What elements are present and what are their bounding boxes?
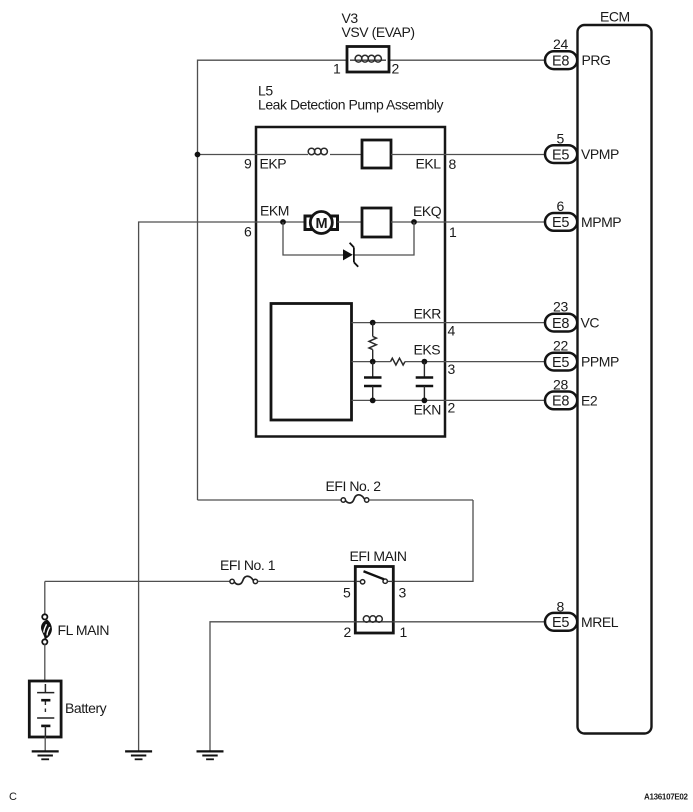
solenoid V3 VSV (EVAP) bbox=[342, 10, 415, 72]
svg-text:M: M bbox=[316, 216, 328, 232]
svg-text:EKS: EKS bbox=[414, 342, 441, 358]
wire battery to ground bbox=[44, 737, 46, 751]
svg-text:EFI No. 2: EFI No. 2 bbox=[326, 478, 382, 494]
wire PRG net bbox=[198, 60, 547, 500]
wire battery feed bbox=[44, 581, 46, 614]
svg-text:VSV (EVAP): VSV (EVAP) bbox=[342, 24, 415, 40]
svg-text:EKL: EKL bbox=[416, 156, 442, 172]
svg-text:9: 9 bbox=[244, 156, 252, 172]
svg-text:22: 22 bbox=[553, 338, 568, 354]
motor M (leak detection pump) bbox=[305, 212, 338, 234]
svg-text:EFI MAIN: EFI MAIN bbox=[350, 548, 407, 564]
battery B1 bbox=[29, 681, 106, 737]
junction EKN right node bbox=[422, 398, 428, 404]
pressure sensor box (L5) bbox=[271, 304, 352, 421]
capacitor C1 bbox=[364, 362, 382, 401]
wire motor to EKQ box bbox=[338, 221, 363, 223]
wire EKS net (R2 to ECM) bbox=[405, 361, 546, 363]
module box (EKQ driver) bbox=[362, 208, 391, 237]
terminal E8-28 E2 bbox=[545, 377, 598, 410]
ground (battery) bbox=[32, 751, 59, 759]
resistor R1 (vertical) bbox=[369, 323, 376, 362]
svg-text:VC: VC bbox=[581, 315, 600, 331]
svg-text:2: 2 bbox=[392, 61, 400, 77]
wire EKQ net bbox=[391, 221, 546, 223]
svg-text:E8: E8 bbox=[552, 316, 569, 332]
svg-text:E5: E5 bbox=[552, 615, 569, 631]
svg-text:E2: E2 bbox=[581, 392, 598, 408]
svg-text:E5: E5 bbox=[552, 215, 569, 231]
wire MREL net bbox=[393, 621, 546, 623]
wire EKM net bbox=[139, 222, 305, 751]
capacitor C2 bbox=[416, 362, 434, 401]
svg-text:Leak Detection Pump Assembly: Leak Detection Pump Assembly bbox=[258, 97, 444, 113]
wire zener branch bbox=[283, 222, 343, 255]
svg-text:5: 5 bbox=[343, 585, 351, 601]
svg-text:EKP: EKP bbox=[260, 156, 287, 172]
svg-text:EKR: EKR bbox=[414, 306, 442, 322]
L5 Leak Detection Pump Assembly bbox=[256, 83, 445, 437]
svg-text:3: 3 bbox=[399, 585, 407, 601]
junction (vertical / EKP) bbox=[195, 152, 201, 158]
fusible link FL MAIN bbox=[41, 614, 109, 644]
wire EKR net bbox=[352, 322, 547, 324]
svg-text:1: 1 bbox=[449, 224, 457, 240]
svg-text:1: 1 bbox=[400, 624, 408, 640]
svg-text:2: 2 bbox=[448, 400, 456, 416]
junction EKS right node bbox=[422, 359, 428, 365]
wire EKL net bbox=[391, 154, 546, 156]
svg-text:PRG: PRG bbox=[582, 52, 611, 68]
svg-text:6: 6 bbox=[244, 224, 252, 240]
zener diode D1 bbox=[343, 243, 358, 267]
svg-text:1: 1 bbox=[333, 61, 341, 77]
junction EKS left node bbox=[370, 359, 376, 365]
ECM bbox=[578, 9, 652, 734]
svg-text:FL MAIN: FL MAIN bbox=[58, 622, 110, 638]
svg-text:EKM: EKM bbox=[260, 203, 289, 219]
svg-text:C: C bbox=[9, 791, 17, 803]
junction EKM node bbox=[280, 219, 286, 225]
svg-text:MPMP: MPMP bbox=[581, 214, 621, 230]
wire zener branch right bbox=[354, 222, 414, 255]
junction EKQ node bbox=[411, 219, 417, 225]
terminal E8-24 PRG bbox=[545, 36, 611, 70]
svg-text:24: 24 bbox=[553, 36, 568, 52]
svg-text:EKN: EKN bbox=[414, 402, 441, 418]
fuse EFI No. 1 bbox=[45, 557, 356, 584]
svg-text:PPMP: PPMP bbox=[581, 354, 619, 370]
svg-text:A136107E02: A136107E02 bbox=[644, 793, 689, 802]
wire relay pin2 to ground bbox=[210, 622, 355, 751]
junction EKR node bbox=[370, 320, 376, 326]
terminal E5-8 MREL bbox=[545, 598, 619, 631]
svg-text:28: 28 bbox=[553, 377, 568, 393]
inductor (EKP coil) bbox=[308, 148, 362, 155]
svg-text:2: 2 bbox=[344, 624, 352, 640]
terminal E8-23 VC bbox=[545, 299, 599, 332]
module box (EKL driver) bbox=[362, 140, 391, 168]
svg-text:ECM: ECM bbox=[600, 9, 630, 25]
svg-text:MREL: MREL bbox=[581, 614, 619, 630]
svg-text:E5: E5 bbox=[552, 355, 569, 371]
ground (EKM line) bbox=[125, 751, 152, 759]
svg-text:4: 4 bbox=[448, 323, 456, 339]
svg-text:E8: E8 bbox=[552, 394, 569, 410]
relay EFI MAIN bbox=[350, 548, 407, 633]
terminal E5-22 PPMP bbox=[545, 338, 619, 371]
wire EFI No.2 to relay pin 3 bbox=[393, 500, 473, 581]
fuse EFI No. 2 bbox=[198, 478, 474, 503]
ground (relay coil) bbox=[197, 751, 224, 759]
svg-text:EFI No. 1: EFI No. 1 bbox=[220, 557, 276, 573]
terminal E5-5 VPMP bbox=[545, 131, 619, 164]
svg-text:23: 23 bbox=[553, 299, 568, 315]
wire EKN net bbox=[352, 399, 547, 401]
svg-text:EKQ: EKQ bbox=[413, 203, 442, 219]
wire FL MAIN to battery bbox=[44, 644, 46, 681]
svg-text:6: 6 bbox=[557, 198, 565, 214]
resistor R2 (series, horizontal) bbox=[391, 358, 406, 365]
wire EKP net bbox=[198, 154, 309, 156]
terminal E5-6 MPMP bbox=[545, 198, 621, 231]
svg-text:E5: E5 bbox=[552, 147, 569, 163]
wire EKS net (sensor to R2) bbox=[352, 361, 391, 363]
svg-text:Battery: Battery bbox=[65, 700, 107, 716]
svg-text:E8: E8 bbox=[552, 53, 569, 69]
svg-text:8: 8 bbox=[449, 156, 457, 172]
svg-text:VPMP: VPMP bbox=[581, 146, 619, 162]
junction EKN left node bbox=[370, 398, 376, 404]
svg-text:3: 3 bbox=[448, 361, 456, 377]
